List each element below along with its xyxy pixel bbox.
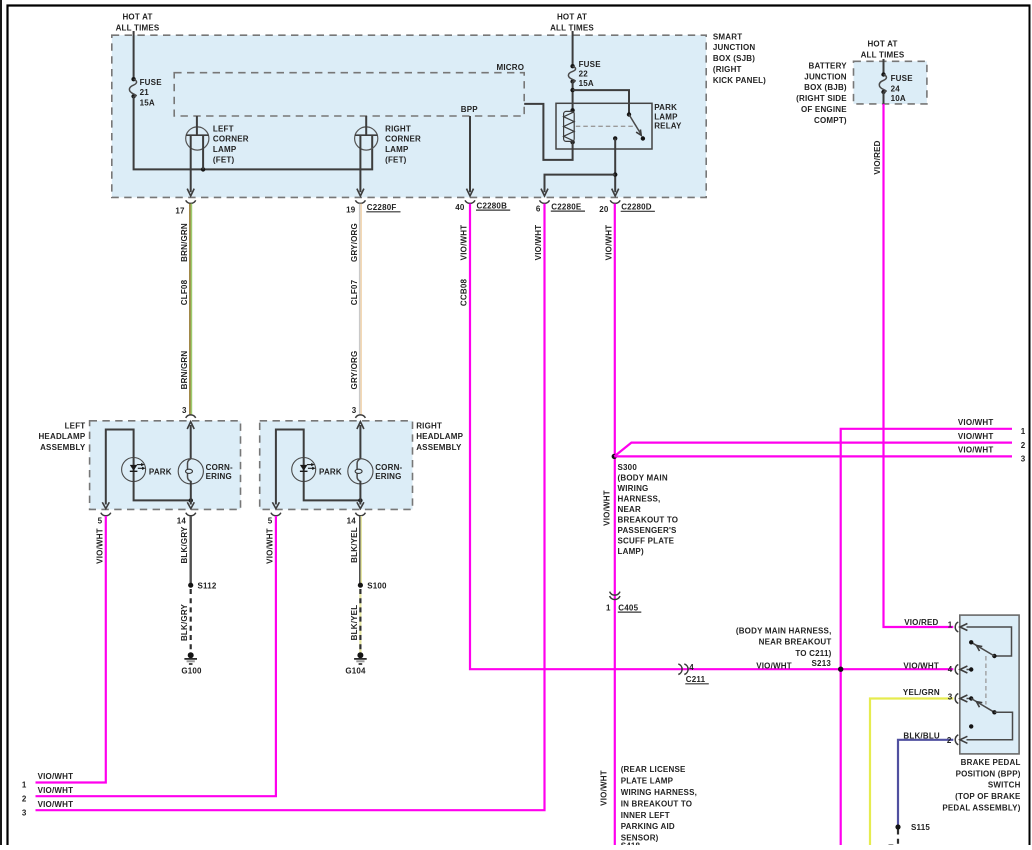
svg-text:C211: C211 bbox=[686, 675, 706, 684]
svg-text:3: 3 bbox=[182, 406, 187, 415]
svg-text:C2280E: C2280E bbox=[551, 202, 582, 211]
wire VIO/WHT S300 to right edge wire 2 bbox=[614, 443, 1012, 457]
splice S115 bbox=[895, 823, 930, 832]
splice S300 bbox=[612, 454, 679, 556]
smart junction box SJB bbox=[112, 35, 706, 197]
svg-text:3: 3 bbox=[948, 692, 953, 701]
wire BPP output from micro bbox=[469, 116, 471, 192]
wire fuse 24 to BJB bottom bbox=[883, 92, 885, 104]
svg-text:VIO/WHT: VIO/WHT bbox=[38, 800, 74, 809]
BPP pin 2 connector bbox=[903, 731, 967, 745]
label hot at all times left bbox=[116, 12, 160, 32]
svg-text:CCB08: CCB08 bbox=[460, 279, 469, 307]
svg-text:BLK/BLU: BLK/BLU bbox=[903, 731, 940, 740]
fuse 24 bbox=[879, 72, 913, 103]
svg-text:WIRING HARNESS,: WIRING HARNESS, bbox=[621, 788, 697, 797]
svg-text:VIO/WHT: VIO/WHT bbox=[600, 770, 609, 806]
left headlamp pin 3 connector bbox=[182, 406, 196, 459]
svg-text:(TOP OF BRAKE: (TOP OF BRAKE bbox=[955, 792, 1021, 801]
wire BLK/GRY left pin 14 to S112 bbox=[180, 516, 191, 585]
svg-text:C2280F: C2280F bbox=[367, 203, 397, 212]
svg-text:ERING: ERING bbox=[375, 472, 401, 481]
label rear license plate harness S418 bbox=[621, 765, 697, 850]
left edge wire labels 1 2 3 bbox=[22, 772, 73, 817]
wire BLK/BLU below S115 dashed bbox=[897, 830, 899, 846]
svg-text:5: 5 bbox=[268, 517, 273, 526]
fuse 21 bbox=[129, 77, 162, 107]
svg-text:ALL TIMES: ALL TIMES bbox=[116, 23, 160, 32]
svg-text:COMPT): COMPT) bbox=[814, 116, 847, 125]
left corner lamp FET U-left bbox=[186, 116, 249, 196]
left junction node and pin 14 exit bbox=[189, 498, 193, 502]
BPP internal pin 1 branch bbox=[967, 627, 1012, 658]
svg-text:(FET): (FET) bbox=[385, 156, 407, 165]
wire fuse 22 to relay coil bbox=[572, 82, 574, 111]
fuse 22 bbox=[568, 60, 601, 88]
svg-text:CORNER: CORNER bbox=[213, 135, 249, 144]
svg-text:BPP: BPP bbox=[461, 105, 479, 114]
svg-text:VIO/WHT: VIO/WHT bbox=[958, 432, 994, 441]
svg-text:VIO/WHT: VIO/WHT bbox=[756, 661, 792, 670]
svg-text:VIO/WHT: VIO/WHT bbox=[958, 446, 994, 455]
svg-text:(BODY MAIN HARNESS,: (BODY MAIN HARNESS, bbox=[736, 626, 832, 635]
svg-text:CLF08: CLF08 bbox=[180, 279, 189, 305]
svg-text:6: 6 bbox=[536, 204, 541, 213]
park lamp relay bbox=[556, 103, 682, 149]
svg-text:VIO/RED: VIO/RED bbox=[873, 140, 882, 174]
svg-text:CORN-: CORN- bbox=[375, 463, 402, 472]
left cornering lamp bbox=[178, 459, 233, 484]
left headlamp internal wiring bbox=[106, 430, 134, 505]
svg-text:22: 22 bbox=[579, 69, 589, 78]
svg-text:S100: S100 bbox=[367, 581, 387, 590]
svg-text:RIGHT: RIGHT bbox=[385, 124, 411, 133]
BPP pin 3 connector bbox=[903, 688, 967, 703]
svg-text:(BODY MAIN: (BODY MAIN bbox=[618, 474, 668, 483]
right cornering lamp bbox=[348, 459, 403, 484]
svg-text:POSITION (BPP): POSITION (BPP) bbox=[956, 769, 1021, 778]
svg-text:2: 2 bbox=[22, 795, 27, 804]
svg-text:C405: C405 bbox=[618, 603, 638, 612]
svg-text:VIO/WHT: VIO/WHT bbox=[265, 528, 274, 564]
wire right park LED to junction bbox=[304, 482, 361, 501]
junction node below fuse 22 bbox=[570, 88, 574, 92]
wire BLK/YEL right pin 14 to S100 bbox=[350, 516, 361, 585]
svg-text:NEAR: NEAR bbox=[618, 505, 641, 514]
BPP pin 4 connector bbox=[903, 661, 967, 674]
left pin 14 connector bbox=[177, 513, 196, 526]
svg-text:VIO/WHT: VIO/WHT bbox=[603, 490, 612, 526]
right edge wire labels 1 2 3 bbox=[958, 418, 1026, 464]
wire VIO/WHT pin 6 to left edge wire 3 bbox=[36, 204, 545, 811]
BPP internal lone contact bbox=[969, 724, 973, 728]
svg-text:BREAKOUT TO: BREAKOUT TO bbox=[618, 516, 679, 525]
right headlamp assembly box bbox=[260, 421, 413, 510]
svg-text:1: 1 bbox=[606, 603, 611, 612]
svg-text:4: 4 bbox=[689, 663, 694, 672]
svg-text:ALL TIMES: ALL TIMES bbox=[550, 23, 594, 32]
svg-text:17: 17 bbox=[175, 206, 185, 215]
svg-text:10A: 10A bbox=[891, 94, 906, 103]
micro box bbox=[174, 73, 524, 116]
junction node on feed wire bbox=[201, 167, 205, 171]
svg-text:(FET): (FET) bbox=[213, 156, 235, 165]
svg-text:BLK/GRY: BLK/GRY bbox=[180, 526, 189, 564]
svg-text:ERING: ERING bbox=[206, 472, 232, 481]
wire GRY/ORG pin 19 to right headlamp bbox=[350, 204, 361, 415]
label smart junction box bbox=[713, 32, 766, 85]
svg-text:2: 2 bbox=[1021, 441, 1026, 450]
wire VIO/WHT right pin 5 to left edge wire 2 bbox=[36, 516, 276, 796]
pin 19 connector C2280F bbox=[346, 200, 400, 214]
label brake pedal position switch bbox=[942, 758, 1021, 812]
svg-text:BRN/GRN: BRN/GRN bbox=[180, 223, 189, 262]
BPP internal dashed link bbox=[985, 656, 987, 705]
svg-text:15A: 15A bbox=[579, 79, 594, 88]
splice S213 bbox=[736, 626, 844, 672]
svg-text:INNER LEFT: INNER LEFT bbox=[621, 811, 670, 820]
svg-text:14: 14 bbox=[347, 517, 357, 526]
svg-text:MICRO: MICRO bbox=[497, 63, 525, 72]
wire BLK/YEL S100 to ground dashed bbox=[350, 589, 360, 653]
svg-text:ASSEMBLY: ASSEMBLY bbox=[40, 443, 86, 452]
svg-text:CORNER: CORNER bbox=[385, 135, 421, 144]
svg-text:G100: G100 bbox=[181, 666, 202, 675]
svg-text:S115: S115 bbox=[911, 823, 930, 832]
wire YEL/GRN BPP pin 3 bbox=[870, 699, 953, 846]
svg-text:PARK: PARK bbox=[319, 468, 342, 477]
svg-text:YEL/GRN: YEL/GRN bbox=[903, 688, 940, 697]
brake pedal position switch box bbox=[960, 615, 1019, 754]
svg-text:S112: S112 bbox=[198, 581, 217, 590]
svg-text:GRY/ORG: GRY/ORG bbox=[350, 223, 359, 262]
svg-text:SWITCH: SWITCH bbox=[988, 781, 1021, 790]
svg-text:JUNCTION: JUNCTION bbox=[804, 72, 847, 81]
wire park LED to junction bbox=[134, 482, 191, 501]
svg-text:3: 3 bbox=[1021, 455, 1026, 464]
left park LED lamp bbox=[122, 458, 172, 482]
svg-text:LAMP: LAMP bbox=[654, 112, 678, 121]
pin 17 connector at SJB bbox=[175, 200, 195, 215]
svg-text:JUNCTION: JUNCTION bbox=[713, 43, 756, 52]
page border frame left line bbox=[6, 5, 8, 846]
svg-text:TO C211): TO C211) bbox=[795, 649, 831, 658]
svg-text:GRY/ORG: GRY/ORG bbox=[350, 351, 359, 390]
label left headlamp assembly bbox=[38, 422, 85, 452]
wire hot feed to fuse 21 bbox=[133, 31, 135, 79]
svg-text:G104: G104 bbox=[345, 666, 366, 675]
wire VIO/RED fuse 24 to BPP pin 1 bbox=[873, 104, 953, 627]
svg-text:14: 14 bbox=[177, 517, 187, 526]
svg-text:HOT AT: HOT AT bbox=[122, 12, 152, 21]
wire VIO/WHT pin 40 to C211 bbox=[460, 204, 954, 670]
svg-text:HEADLAMP: HEADLAMP bbox=[416, 432, 463, 441]
svg-text:4: 4 bbox=[948, 665, 953, 674]
label battery junction box bbox=[796, 61, 847, 125]
svg-text:BOX (BJB): BOX (BJB) bbox=[804, 83, 847, 92]
wire BLK/GRY S112 to ground dashed bbox=[180, 589, 191, 653]
pin 40 connector C2280B bbox=[455, 200, 510, 212]
svg-text:SCUFF PLATE: SCUFF PLATE bbox=[618, 537, 675, 546]
svg-text:3: 3 bbox=[22, 809, 27, 818]
svg-text:(RIGHT SIDE: (RIGHT SIDE bbox=[796, 94, 847, 103]
wire hot feed to fuse 22 bbox=[572, 31, 574, 66]
svg-text:LEFT: LEFT bbox=[65, 422, 86, 431]
svg-text:HOT AT: HOT AT bbox=[557, 12, 587, 21]
svg-text:PARK: PARK bbox=[149, 468, 172, 477]
right park LED lamp bbox=[292, 458, 342, 482]
svg-text:BATTERY: BATTERY bbox=[809, 61, 848, 70]
svg-text:LAMP): LAMP) bbox=[618, 547, 644, 556]
svg-text:BRAKE PEDAL: BRAKE PEDAL bbox=[961, 758, 1021, 767]
svg-text:FUSE: FUSE bbox=[140, 78, 163, 87]
wire hot feed to fuse 24 bbox=[883, 59, 885, 75]
svg-text:BLK/YEL: BLK/YEL bbox=[350, 527, 359, 563]
svg-text:VIO/WHT: VIO/WHT bbox=[534, 225, 543, 261]
label hot at all times right bbox=[861, 39, 905, 59]
svg-text:HOT AT: HOT AT bbox=[867, 39, 897, 48]
wire branch to relay switch pivot bbox=[573, 90, 629, 114]
svg-text:PEDAL ASSEMBLY): PEDAL ASSEMBLY) bbox=[942, 803, 1020, 812]
wire fuse 21 feed to corner lamps bbox=[134, 96, 373, 169]
splice S112 bbox=[188, 581, 217, 590]
wire VIO/WHT right edge wire 1 to S213 bbox=[841, 429, 1012, 845]
svg-text:20: 20 bbox=[599, 205, 609, 214]
svg-text:BLK/YEL: BLK/YEL bbox=[350, 605, 359, 641]
right pin 5 connector bbox=[268, 513, 281, 526]
svg-text:FUSE: FUSE bbox=[891, 74, 914, 83]
svg-text:19: 19 bbox=[346, 206, 356, 215]
svg-text:(RIGHT: (RIGHT bbox=[713, 65, 742, 74]
svg-text:24: 24 bbox=[891, 84, 901, 93]
svg-text:ASSEMBLY: ASSEMBLY bbox=[416, 443, 462, 452]
svg-text:3: 3 bbox=[352, 406, 357, 415]
svg-text:VIO/WHT: VIO/WHT bbox=[95, 528, 104, 564]
wire VIO/WHT pin 20 main vertical bbox=[600, 204, 615, 845]
label hot at all times middle bbox=[550, 12, 594, 32]
svg-text:S300: S300 bbox=[618, 463, 638, 472]
ground G104 bbox=[345, 652, 366, 675]
svg-text:SMART: SMART bbox=[713, 32, 742, 41]
svg-text:HARNESS,: HARNESS, bbox=[618, 495, 661, 504]
svg-text:LEFT: LEFT bbox=[213, 124, 234, 133]
BPP pin 1 connector bbox=[904, 618, 967, 632]
svg-text:BLK/GRY: BLK/GRY bbox=[180, 603, 189, 641]
battery junction box BJB bbox=[854, 61, 927, 104]
page border frame right line bbox=[1029, 6, 1031, 846]
left headlamp assembly box bbox=[90, 421, 241, 510]
svg-text:LAMP: LAMP bbox=[213, 145, 237, 154]
svg-text:PLATE LAMP: PLATE LAMP bbox=[621, 777, 674, 786]
svg-text:VIO/WHT: VIO/WHT bbox=[903, 661, 939, 670]
wire BLK/BLU BPP pin 2 to S115 bbox=[898, 740, 953, 827]
svg-text:1: 1 bbox=[22, 781, 27, 790]
right pin 14 connector bbox=[347, 513, 366, 526]
splice S100 bbox=[358, 581, 387, 590]
svg-text:WIRING: WIRING bbox=[618, 484, 649, 493]
svg-text:VIO/WHT: VIO/WHT bbox=[38, 772, 74, 781]
svg-text:S213: S213 bbox=[812, 659, 832, 668]
right headlamp pin 3 connector bbox=[352, 406, 366, 459]
wire VIO/WHT S300 to right edge wire 3 bbox=[614, 455, 1012, 457]
svg-text:OF ENGINE: OF ENGINE bbox=[801, 105, 847, 114]
svg-text:PARKING AID: PARKING AID bbox=[621, 822, 675, 831]
right junction node and pin 14 exit bbox=[358, 498, 362, 502]
svg-text:CORN-: CORN- bbox=[206, 463, 233, 472]
svg-text:BOX (SJB): BOX (SJB) bbox=[713, 54, 755, 63]
svg-text:40: 40 bbox=[455, 203, 465, 212]
svg-text:RIGHT: RIGHT bbox=[416, 422, 442, 431]
wire relay output to pins 6 and 20 bbox=[614, 138, 616, 192]
svg-text:BRN/GRN: BRN/GRN bbox=[180, 351, 189, 390]
svg-text:IN BREAKOUT TO: IN BREAKOUT TO bbox=[621, 799, 693, 808]
pin 6 connector C2280E bbox=[536, 200, 585, 213]
svg-text:15A: 15A bbox=[140, 98, 155, 107]
wire micro to relay coil low side bbox=[524, 104, 572, 160]
svg-text:RELAY: RELAY bbox=[654, 122, 682, 131]
svg-text:VIO/WHT: VIO/WHT bbox=[958, 418, 994, 427]
right headlamp internal wiring bbox=[276, 430, 304, 505]
svg-text:CLF07: CLF07 bbox=[350, 279, 359, 305]
svg-text:1: 1 bbox=[948, 621, 953, 630]
right corner lamp FET U-right bbox=[355, 116, 421, 196]
wire VIO/WHT left pin 5 to left edge wire 1 bbox=[36, 516, 106, 783]
svg-text:C2280B: C2280B bbox=[477, 201, 508, 210]
label right headlamp assembly bbox=[416, 422, 463, 452]
connector C405 bbox=[606, 592, 641, 613]
svg-text:C2280D: C2280D bbox=[621, 203, 652, 212]
svg-text:HEADLAMP: HEADLAMP bbox=[38, 432, 85, 441]
wire BRN/GRN pin 17 to left headlamp bbox=[180, 204, 191, 415]
pin 20 connector C2280D bbox=[599, 200, 655, 214]
svg-text:NEAR BREAKOUT: NEAR BREAKOUT bbox=[759, 638, 832, 647]
BPP internal pin 4 stub bbox=[967, 667, 974, 671]
svg-text:PARK: PARK bbox=[654, 103, 677, 112]
svg-text:FUSE: FUSE bbox=[579, 60, 602, 69]
svg-text:VIO/WHT: VIO/WHT bbox=[460, 225, 469, 261]
svg-text:LAMP: LAMP bbox=[385, 145, 409, 154]
left pin 5 connector bbox=[98, 513, 111, 526]
connector C211 bbox=[678, 663, 709, 684]
svg-text:21: 21 bbox=[140, 88, 150, 97]
svg-text:VIO/WHT: VIO/WHT bbox=[38, 786, 74, 795]
svg-text:(REAR LICENSE: (REAR LICENSE bbox=[621, 765, 686, 774]
svg-text:VIO/WHT: VIO/WHT bbox=[604, 225, 613, 261]
page border outer left line bbox=[0, 0, 2, 845]
svg-text:KICK PANEL): KICK PANEL) bbox=[713, 76, 766, 85]
svg-text:2: 2 bbox=[947, 736, 952, 745]
svg-text:S418: S418 bbox=[621, 842, 641, 845]
svg-text:VIO/RED: VIO/RED bbox=[904, 618, 938, 627]
BPP internal pin 3 switch arm bbox=[967, 696, 1013, 740]
page border frame top line bbox=[7, 4, 1031, 6]
svg-text:PASSENGER'S: PASSENGER'S bbox=[618, 526, 678, 535]
ground G100 bbox=[181, 652, 202, 675]
svg-text:5: 5 bbox=[98, 517, 103, 526]
svg-text:ALL TIMES: ALL TIMES bbox=[861, 50, 905, 59]
svg-text:1: 1 bbox=[1021, 427, 1026, 436]
